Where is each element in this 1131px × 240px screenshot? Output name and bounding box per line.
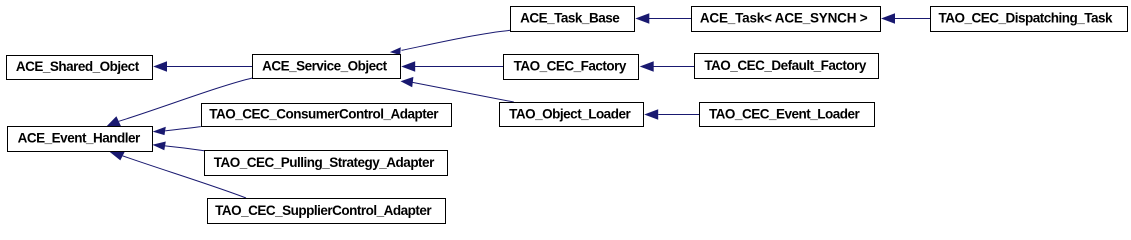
arrowhead at TAO_CEC_Factory [640,61,654,71]
node ACE_Event_Handler [8,127,153,152]
svg-text:ACE_Event_Handler: ACE_Event_Handler [18,131,141,146]
node TAO_CEC_Pulling_Strategy_Adapter [205,151,448,176]
arrowhead at ACE_Event_Handler top [107,116,121,126]
wire TAO_CEC_SupplierControl_Adapter to ACE_Event_Handler [123,156,246,198]
arrowhead at ACE_Service_Object top-right [390,47,401,55]
node ACE_Shared_Object [7,56,153,80]
node TAO_CEC_SupplierControl_Adapter [208,199,446,224]
node TAO_CEC_Event_Loader [700,103,875,127]
arrowhead middle right of ACE_Service_Object [401,61,415,71]
node ACE_Task_Base [511,7,635,32]
wire ACE_Task_Base to ACE_Service_Object [402,30,511,50]
wire TAO_CEC_Event_Loader to TAO_Object_Loader [658,114,699,116]
svg-text:TAO_CEC_Dispatching_Task: TAO_CEC_Dispatching_Task [939,11,1114,26]
arrowhead at ACE_Task ACE_SYNCH [881,13,895,23]
svg-text:TAO_CEC_Event_Loader: TAO_CEC_Event_Loader [709,107,861,122]
wire TAO_CEC_Pulling_Strategy_Adapter to ACE_Event_Handler [165,146,204,151]
svg-text:ACE_Task_Base: ACE_Task_Base [520,11,620,26]
node TAO_Object_Loader [500,103,644,127]
wire TAO_CEC_Dispatching_Task to ACE_Task ACE_SYNCH [895,18,931,20]
node TAO_CEC_Default_Factory [695,54,879,79]
wire TAO_Object_Loader to ACE_Service_Object [413,82,514,102]
arrowhead at TAO_Object_Loader [644,109,658,119]
node ACE_Service_Object [253,55,401,79]
wire ACE_Service_Object to ACE_Shared_Object [166,66,253,68]
svg-text:TAO_CEC_Default_Factory: TAO_CEC_Default_Factory [704,58,867,73]
svg-text:TAO_CEC_Pulling_Strategy_Adapt: TAO_CEC_Pulling_Strategy_Adapter [214,155,435,170]
svg-text:ACE_Shared_Object: ACE_Shared_Object [16,59,140,74]
arrowhead at ACE_Event_Handler bottom [109,151,125,160]
arrowhead at ACE_Shared_Object [153,61,167,71]
arrowhead right edge lower of ACE_Event_Handler [152,142,166,151]
wire ACE_Task ACE_SYNCH to ACE_Task_Base [649,18,692,20]
wire TAO_CEC_Default_Factory to TAO_CEC_Factory [653,66,694,68]
node TAO_CEC_Factory [504,55,639,80]
node TAO_CEC_ConsumerControl_Adapter [202,104,452,127]
wire TAO_CEC_ConsumerControl_Adapter to ACE_Event_Handler [165,127,201,131]
svg-text:TAO_Object_Loader: TAO_Object_Loader [509,106,631,121]
wire TAO_CEC_Factory to ACE_Service_Object [415,66,504,68]
arrowhead at ACE_Task_Base [635,13,649,23]
node ACE_Task ACE_SYNCH [692,7,881,32]
svg-text:TAO_CEC_Factory: TAO_CEC_Factory [514,59,627,74]
svg-text:TAO_CEC_SupplierControl_Adapte: TAO_CEC_SupplierControl_Adapter [215,203,432,218]
arrowhead right edge upper of ACE_Event_Handler [153,127,166,135]
svg-text:ACE_Task< ACE_SYNCH >: ACE_Task< ACE_SYNCH > [700,11,868,26]
svg-text:ACE_Service_Object: ACE_Service_Object [262,58,388,73]
node TAO_CEC_Dispatching_Task [931,7,1128,32]
svg-text:TAO_CEC_ConsumerControl_Adapte: TAO_CEC_ConsumerControl_Adapter [209,107,439,122]
arrowhead at ACE_Service_Object bottom-right [401,77,414,87]
wire ACE_Service_Object to ACE_Event_Handler [119,78,253,121]
